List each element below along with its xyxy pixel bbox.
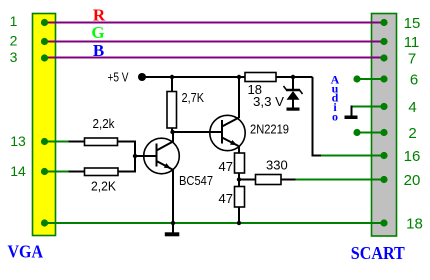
svg-text:330: 330 [266,158,288,173]
svg-text:2,7K: 2,7K [182,90,205,105]
svg-text:15: 15 [404,15,421,32]
svg-text:R: R [93,6,106,25]
svg-text:4: 4 [408,99,416,116]
svg-text:G: G [91,23,104,42]
svg-text:7: 7 [408,51,416,68]
svg-text:16: 16 [404,148,421,165]
svg-text:11: 11 [404,34,420,51]
svg-text:VGA: VGA [8,242,44,262]
svg-text:o: o [332,110,338,124]
svg-text:BC547: BC547 [179,173,213,188]
svg-text:1: 1 [10,13,18,29]
svg-text:2,2K: 2,2K [91,179,116,194]
svg-text:20: 20 [404,172,421,189]
svg-text:B: B [93,41,104,60]
svg-text:SCART: SCART [351,243,405,263]
svg-text:2,2k: 2,2k [93,116,115,131]
svg-text:18: 18 [406,216,423,233]
svg-text:14: 14 [10,163,26,179]
svg-text:3,3 V: 3,3 V [253,94,284,109]
svg-text:13: 13 [10,133,26,149]
svg-text:6: 6 [410,72,418,89]
svg-text:47: 47 [219,191,233,206]
svg-text:2: 2 [10,33,18,49]
svg-text:2: 2 [408,125,416,142]
svg-text:47: 47 [219,159,233,174]
svg-text:+5 V: +5 V [108,70,129,85]
svg-text:3: 3 [10,49,18,65]
svg-text:2N2219: 2N2219 [250,122,289,137]
